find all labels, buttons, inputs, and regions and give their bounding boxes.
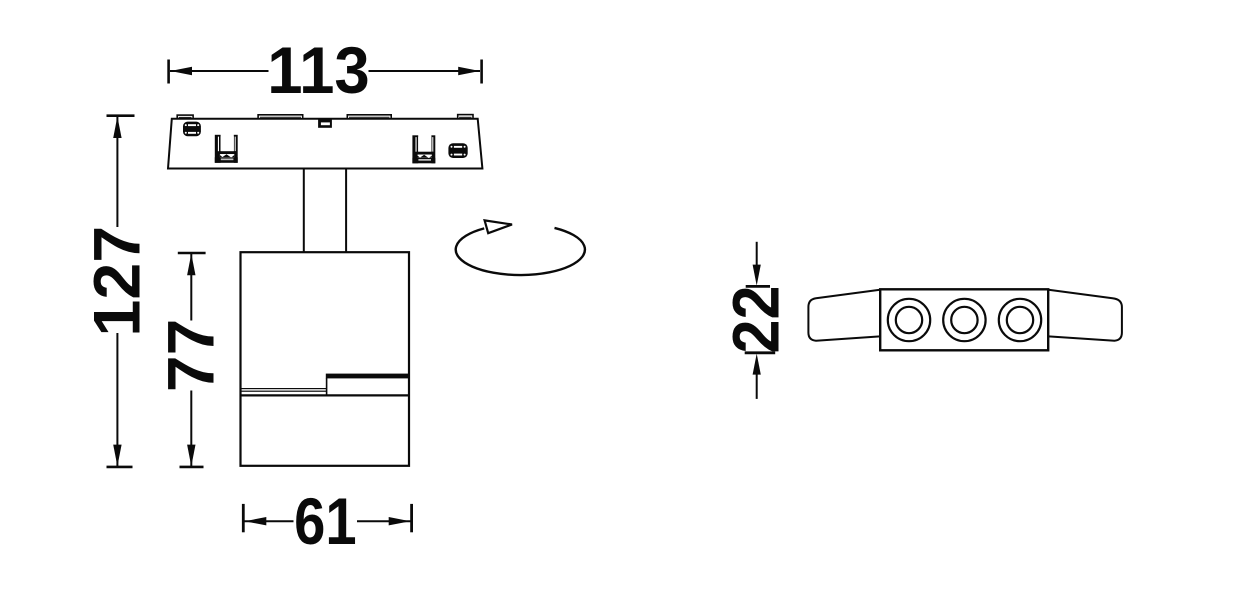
- adapter screw left: [183, 122, 201, 137]
- dimension 127 vertical: [107, 116, 135, 467]
- led 1: [888, 299, 930, 341]
- led 2: [943, 299, 985, 341]
- svg-text:22: 22: [720, 286, 794, 354]
- stem: [303, 170, 305, 253]
- dimension 113 horizontal: [169, 60, 482, 84]
- side view central rect: [880, 289, 1048, 350]
- svg-text:127: 127: [81, 226, 155, 337]
- svg-text:61: 61: [294, 485, 356, 558]
- body split line: [241, 394, 409, 396]
- svg-text:77: 77: [154, 319, 228, 392]
- body thin line 1: [240, 388, 327, 389]
- led 3: [999, 299, 1041, 341]
- adapter tab mid-right: [347, 115, 391, 119]
- adapter clip left: [215, 135, 238, 163]
- track adapter trapezoid: [168, 119, 482, 169]
- rotation arrow: [456, 220, 585, 275]
- adapter tab right: [458, 115, 473, 119]
- dimension 22 vertical: [745, 242, 776, 399]
- adapter tab left: [177, 115, 193, 119]
- adapter tab mid-left: [258, 115, 303, 119]
- adapter screw right: [448, 143, 467, 158]
- body: [241, 252, 410, 466]
- dimension 77 vertical: [178, 253, 206, 467]
- side view right wing: [1049, 290, 1122, 341]
- side view left wing: [808, 290, 880, 341]
- body step vertical: [326, 378, 328, 395]
- adapter center slot: [318, 119, 332, 128]
- adapter clip right: [412, 135, 435, 163]
- svg-text:113: 113: [267, 33, 369, 107]
- dimension 61 horizontal: [243, 504, 411, 532]
- body thin line 2: [240, 391, 327, 392]
- body step bar: [326, 374, 409, 379]
